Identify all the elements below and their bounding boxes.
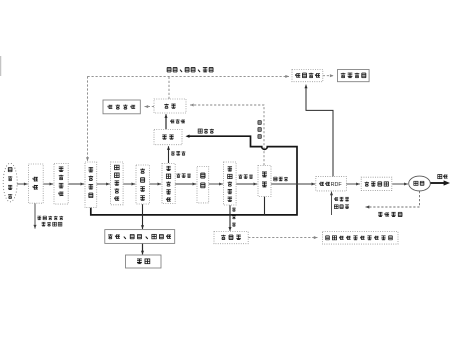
arrow manual sorting down to metals box	[141, 204, 144, 229]
text secondary screening	[228, 167, 232, 202]
box auxiliary material warehouse	[103, 100, 140, 114]
box refuse transfer	[54, 164, 68, 205]
text reuse for urban landscape	[326, 236, 393, 240]
box manual sorting	[136, 165, 149, 204]
label re-ferment (vertical)	[258, 121, 261, 139]
arrow crusher to secondary screen	[209, 182, 223, 185]
dashed line humus soil to reuse box	[248, 236, 317, 239]
line air classifier heavies down to collector	[264, 197, 266, 215]
text plate feeder	[114, 165, 119, 201]
box metals glass wires etc	[105, 230, 175, 244]
text trommel screen	[166, 166, 171, 202]
thick power output arrow	[430, 180, 450, 185]
arrow trommel oversize up to upper air classifier	[167, 146, 170, 163]
text metals glass wires	[108, 234, 171, 239]
arrow incineration to power ellipse	[392, 182, 408, 185]
box incineration power generation	[361, 177, 392, 190]
arrow upper air classifier to screening (light fraction)	[164, 114, 167, 129]
arrow transfer to hopper	[68, 182, 84, 185]
label project self-use	[378, 212, 402, 216]
box crusher	[197, 167, 209, 203]
arrow additives up into RDF prep box	[330, 192, 333, 215]
box secondary screening	[224, 162, 237, 205]
label oversize (trommel up)	[171, 151, 185, 155]
label mid fraction to crusher	[176, 173, 190, 177]
box humus soil	[214, 232, 248, 244]
text crusher	[201, 173, 205, 188]
ellipse electric power	[409, 176, 431, 191]
box screening (compost area)	[154, 99, 186, 113]
svg-text:RDF: RDF	[331, 182, 343, 188]
dashed link screening to material warehouse	[145, 105, 155, 108]
text screening	[164, 104, 175, 109]
text air classifier	[262, 172, 267, 187]
text brick equipment	[295, 73, 320, 78]
label light fraction	[170, 119, 185, 123]
text recycle	[137, 259, 150, 264]
box brick-making equipment	[292, 70, 323, 82]
label rejects to air classifier	[198, 129, 214, 133]
label combustion aid	[334, 197, 349, 201]
text excavation	[33, 177, 38, 190]
dashed composting line top (to brick equipment)	[88, 75, 290, 78]
arrow hopper to plate feeder	[97, 182, 110, 185]
left edge scan artifact	[0, 56, 2, 76]
arrow trommel to crusher	[175, 182, 196, 185]
arrow secondary screen undersize down to humus box	[228, 205, 231, 231]
label combustibles	[274, 177, 288, 181]
label waste removal	[42, 222, 62, 226]
line RDF prep up to brick equipment	[304, 85, 333, 177]
thick residue collector line from hopper bottom to upper air classifier	[91, 135, 297, 215]
label undersize (vertical)	[232, 207, 236, 226]
text upper air classifier	[162, 135, 173, 139]
box building material products	[338, 70, 370, 82]
box air classifier (main row)	[258, 166, 271, 197]
text aged refuse	[8, 168, 12, 199]
dashed link brick equipment to building products	[323, 74, 334, 77]
box trommel screen	[162, 164, 175, 204]
text material warehouse	[108, 104, 135, 109]
box plate feeder	[111, 162, 124, 205]
arrow excavation removal down (vegetation/construction waste)	[33, 203, 36, 228]
arrow secondary screen to air classifier	[236, 182, 257, 185]
arrow manual sorting to trommel	[150, 182, 162, 185]
text receiving hopper	[89, 167, 94, 197]
label output	[438, 175, 448, 179]
arrow metals box down to recycle box	[141, 244, 144, 255]
box receiving hopper	[85, 162, 97, 208]
text electric power	[414, 181, 424, 185]
arrow ellipse to excavation	[17, 182, 28, 185]
dashed self-use power return line	[366, 191, 420, 209]
label binder	[334, 205, 349, 209]
box recycle	[126, 255, 162, 268]
dashed riser from screening box to composting line	[168, 76, 170, 99]
arrow RDF prep to incineration	[346, 182, 360, 185]
arrow feeder to manual sorting	[123, 182, 135, 185]
dashed line air-classifier to screening (re-ferment)	[190, 103, 264, 165]
text manual sorting	[140, 168, 145, 200]
box excavation	[29, 164, 44, 203]
box RDF preparation	[316, 177, 347, 191]
label oversize to air classifier	[238, 174, 252, 178]
ellipse aged refuse (start node)	[3, 163, 17, 202]
label vegetation and construction	[37, 216, 63, 220]
text RDF preparation	[319, 182, 330, 186]
dashed return line down into receiving hopper	[86, 76, 89, 161]
box reuse for urban landscape	[323, 232, 399, 245]
text building products	[341, 73, 366, 78]
text humus soil	[221, 235, 241, 240]
label crush-ferment-turn	[167, 67, 213, 71]
text refuse transfer	[58, 167, 63, 196]
arrow air classifier to RDF prep (combustibles)	[271, 182, 315, 185]
text incineration power	[365, 182, 389, 187]
arrow excavation to transfer	[43, 182, 53, 185]
box upper air classifier	[154, 130, 182, 145]
